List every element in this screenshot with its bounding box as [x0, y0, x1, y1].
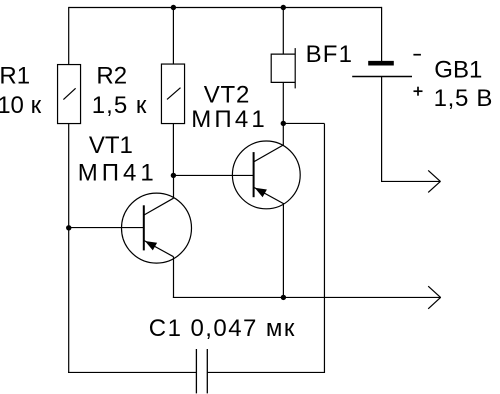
wire: VT1 collector lead up to node [173, 175, 175, 198]
VT1 emitter arrowhead (PNP) [145, 241, 157, 250]
wire: battery bottom lead [381, 77, 383, 183]
svg-text:1,5 В: 1,5 В [434, 85, 494, 112]
wire: R1 bottom lead down the left column [68, 124, 70, 373]
svg-text:VT2: VT2 [204, 82, 250, 109]
svg-text:R2: R2 [96, 62, 127, 89]
svg-text:GB1: GB1 [434, 57, 482, 84]
wire: BF1 bottom lead [282, 82, 284, 123]
node: VT2 emitter junction on output rail [281, 295, 286, 300]
VT2 collector diagonal [254, 145, 284, 162]
capacitor C1 right plate [206, 349, 208, 393]
battery GB1 negative plate (short thick) [368, 61, 394, 66]
VT1 collector diagonal [144, 198, 174, 215]
svg-text:МП41: МП41 [191, 106, 268, 133]
node: junction R1 / VT1 base / C1 left branch [66, 225, 71, 230]
VT2 emitter arrowhead (PNP) [255, 188, 267, 197]
svg-text:1,5 к: 1,5 к [92, 92, 148, 119]
svg-text:10 к: 10 к [0, 92, 42, 119]
svg-text:R1: R1 [0, 62, 30, 89]
VT1 base bar [143, 205, 145, 250]
wire: bottom left wire to C1 [68, 371, 196, 373]
node: junction BF1 / VT2 collector / C1 right branch [281, 121, 286, 126]
wire: VT2 emitter lead down to output rail [282, 203, 284, 297]
svg-text:МП41: МП41 [78, 159, 158, 186]
battery plus sign [414, 90, 423, 92]
wire: bottom right wire to C1 [207, 371, 325, 373]
wire: from VT2 collector node right [283, 122, 324, 124]
svg-text:VT1: VT1 [89, 132, 133, 159]
wire: right branch down to C1 (crosses output rail) [323, 123, 325, 373]
wire: VT2 collector lead up to BF1 node [282, 123, 284, 146]
wire: VT1 base wire [69, 227, 144, 229]
node: junction R2 / VT1 collector / VT2 base [171, 173, 176, 178]
wire: VT1 emitter lead down [173, 257, 175, 298]
resistor R2 body [161, 64, 184, 124]
wire: battery top lead [381, 7, 383, 61]
top supply rail wire [69, 7, 382, 9]
wire: BF1 top lead [282, 8, 284, 55]
svg-text:C1 0,047 мк: C1 0,047 мк [149, 315, 296, 342]
wire: VT2 base wire [173, 174, 254, 176]
transistor VT1 (VT1 body circle) [122, 193, 192, 263]
battery GB1 positive plate (long thin) [352, 76, 412, 78]
resistor R1 body [58, 65, 81, 124]
earphone BF1 symbol [271, 53, 295, 55]
VT2 emitter diagonal [254, 187, 284, 203]
R2 diagonal mark [167, 88, 181, 100]
wire: output 1 to arrow [381, 180, 441, 182]
transistor VT2 (VT2 body circle) [232, 141, 300, 209]
output arrow 2 head [428, 286, 441, 297]
svg-text:BF1: BF1 [306, 41, 354, 68]
wire: R2 top lead [172, 8, 174, 65]
VT1 emitter diagonal [144, 240, 174, 256]
wire: R1 top lead from rail [68, 7, 70, 65]
wire: R2 bottom lead [172, 124, 174, 176]
output arrow 1 head [428, 170, 440, 181]
node: rail junction to R2 [171, 5, 176, 10]
node: rail junction to BF1 [281, 5, 286, 10]
battery minus sign [413, 54, 421, 56]
R1 diagonal mark [63, 88, 75, 99]
wire: emitter output rail to arrow [173, 296, 441, 298]
capacitor C1 left plate [195, 349, 197, 393]
VT2 base bar [253, 152, 255, 197]
